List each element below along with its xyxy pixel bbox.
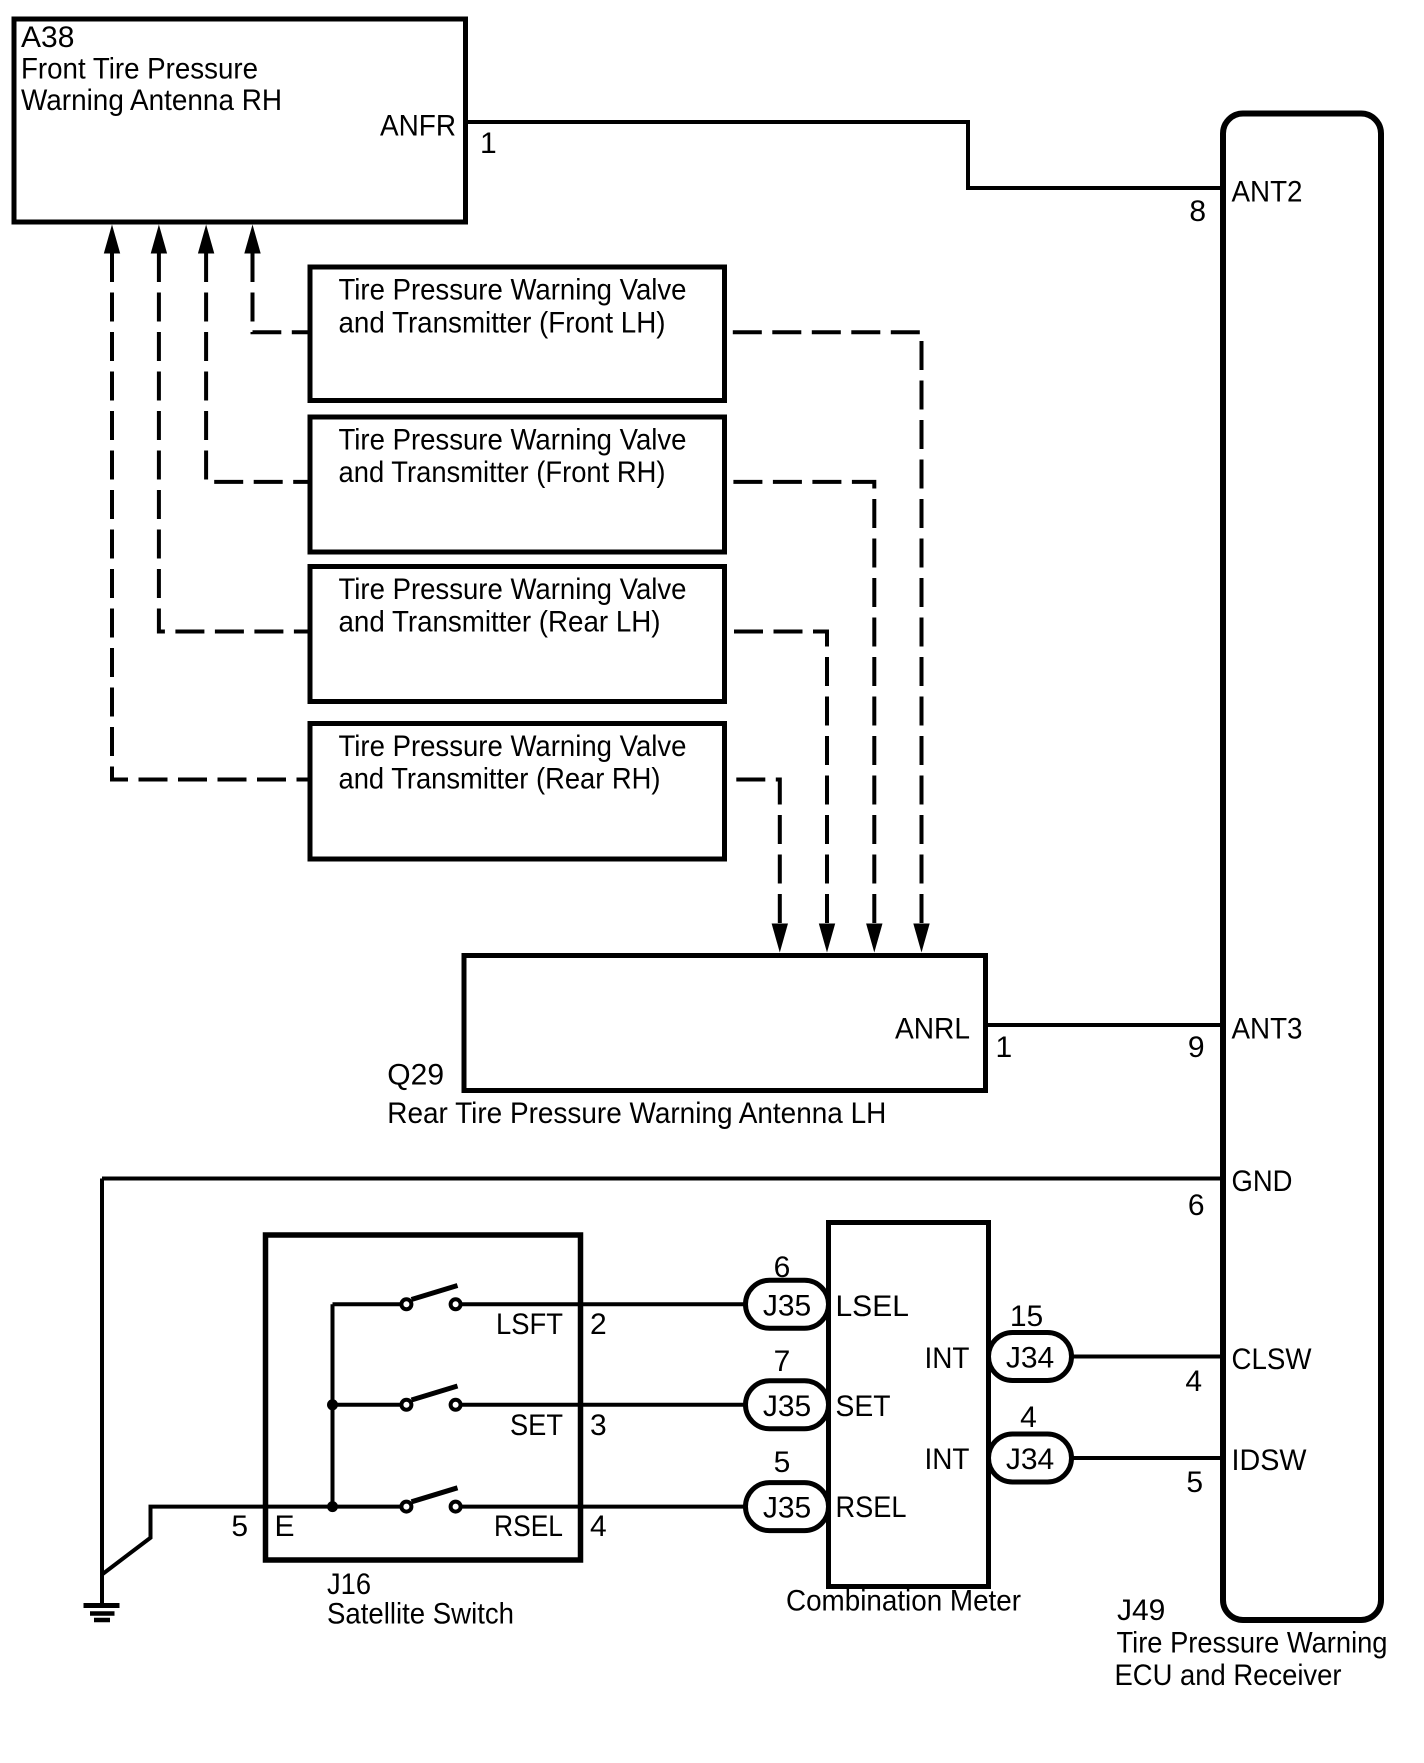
switch SET bbox=[327, 1386, 746, 1410]
pin number 8 (ANT2) bbox=[1189, 195, 1206, 228]
pin label GND bbox=[1232, 1165, 1293, 1198]
svg-text:Q29: Q29 bbox=[387, 1059, 444, 1092]
arrowhead into Q29 (from Front LH) bbox=[913, 924, 929, 953]
arrowhead into A38 (from Rear RH) bbox=[104, 225, 120, 254]
svg-text:5: 5 bbox=[774, 1446, 791, 1479]
pin label SET (meter) bbox=[836, 1390, 891, 1423]
connector J34 pin4 (IDSW) bbox=[989, 1434, 1072, 1482]
pin number 5 (J35 RSEL) bbox=[774, 1446, 791, 1479]
wire ANRL pin1 to ECU pin9 ANT3 bbox=[986, 1023, 1225, 1027]
svg-text:4: 4 bbox=[1020, 1401, 1037, 1434]
pin number 7 (J35 SET) bbox=[774, 1345, 791, 1378]
svg-text:Combination Meter: Combination Meter bbox=[786, 1585, 1021, 1618]
svg-text:ANT2: ANT2 bbox=[1232, 176, 1303, 209]
connector J35 pin6 (LSEL) bbox=[746, 1280, 829, 1328]
svg-text:Rear Tire Pressure Warning Ant: Rear Tire Pressure Warning Antenna LH bbox=[387, 1097, 886, 1130]
svg-text:2: 2 bbox=[590, 1308, 607, 1341]
svg-text:J35: J35 bbox=[763, 1289, 811, 1322]
pin number 1 (ANFR) bbox=[480, 127, 497, 160]
arrowhead into Q29 (from Rear RH) bbox=[772, 924, 788, 953]
block Tire Pressure Warning Valve and Transmitter (Rear LH) bbox=[310, 567, 725, 702]
wire ANFR pin1 to ECU pin8 ANT2 bbox=[466, 122, 1224, 188]
pin number 9 (ANT3) bbox=[1188, 1031, 1205, 1064]
pin number 6 (J35 LSEL) bbox=[774, 1251, 791, 1284]
svg-text:4: 4 bbox=[590, 1510, 607, 1543]
dashed wire Front RH transmitter to Q29 antenna bbox=[727, 482, 874, 923]
svg-text:SET: SET bbox=[510, 1409, 563, 1442]
dashed wire Front RH transmitter to A38 antenna bbox=[206, 253, 308, 482]
pin label CLSW bbox=[1232, 1343, 1313, 1376]
pin label ANT2 bbox=[1232, 176, 1303, 209]
pin number 5 (E) bbox=[231, 1510, 248, 1543]
svg-text:J34: J34 bbox=[1006, 1342, 1054, 1375]
svg-text:GND: GND bbox=[1232, 1165, 1293, 1198]
wire J34 to ECU pin5 IDSW bbox=[1072, 1456, 1225, 1460]
pin number 3 (SET) bbox=[590, 1409, 607, 1442]
svg-text:and Transmitter (Front LH): and Transmitter (Front LH) bbox=[339, 306, 666, 339]
connector J35 pin7 (SET) bbox=[746, 1381, 829, 1429]
svg-text:4: 4 bbox=[1185, 1365, 1202, 1398]
pin number 2 (LSFT) bbox=[590, 1308, 607, 1341]
pin number 5 (IDSW) bbox=[1186, 1466, 1203, 1499]
pin label LSFT bbox=[496, 1308, 563, 1341]
dashed wire Front LH transmitter to A38 antenna bbox=[253, 253, 309, 332]
svg-text:Tire Pressure Warning Valve: Tire Pressure Warning Valve bbox=[339, 274, 687, 307]
caption J49 Tire Pressure Warning ECU and Receiver bbox=[1115, 1594, 1388, 1692]
svg-text:and Transmitter (Rear RH): and Transmitter (Rear RH) bbox=[339, 763, 661, 796]
pin label RSEL (meter) bbox=[836, 1491, 907, 1524]
wire ground vertical bus bbox=[100, 1179, 104, 1604]
svg-text:E: E bbox=[275, 1510, 295, 1543]
pin label ANT3 bbox=[1232, 1013, 1303, 1046]
block Tire Pressure Warning Valve and Transmitter (Front LH) bbox=[310, 267, 725, 401]
switch RSEL bbox=[327, 1488, 746, 1512]
pin label INT (lower) bbox=[925, 1443, 970, 1476]
svg-text:Tire Pressure Warning: Tire Pressure Warning bbox=[1117, 1627, 1388, 1660]
block Q29 Rear Tire Pressure Warning Antenna LH bbox=[387, 956, 985, 1131]
dashed wire Front LH transmitter to Q29 antenna bbox=[727, 332, 922, 923]
svg-text:Front Tire Pressure: Front Tire Pressure bbox=[21, 52, 258, 85]
pin label INT (upper) bbox=[925, 1342, 970, 1375]
svg-text:A38: A38 bbox=[21, 21, 74, 54]
svg-text:Warning Antenna RH: Warning Antenna RH bbox=[21, 84, 282, 117]
svg-text:LSFT: LSFT bbox=[496, 1308, 563, 1341]
wire E pin5 to ground bbox=[102, 1507, 333, 1575]
svg-text:1: 1 bbox=[996, 1031, 1013, 1064]
svg-text:SET: SET bbox=[836, 1390, 891, 1423]
pin label ANRL bbox=[895, 1013, 970, 1046]
svg-text:Satellite Switch: Satellite Switch bbox=[327, 1598, 514, 1631]
svg-text:J34: J34 bbox=[1006, 1443, 1054, 1476]
block Combination Meter bbox=[786, 1223, 1021, 1618]
svg-text:and Transmitter (Rear LH): and Transmitter (Rear LH) bbox=[339, 606, 661, 639]
svg-text:9: 9 bbox=[1188, 1031, 1205, 1064]
pin number 6 (GND) bbox=[1188, 1189, 1205, 1222]
pin number 4 (J34) bbox=[1020, 1401, 1037, 1434]
arrowhead into Q29 (from Front RH) bbox=[866, 924, 882, 953]
svg-text:5: 5 bbox=[231, 1510, 248, 1543]
svg-text:8: 8 bbox=[1189, 195, 1206, 228]
svg-text:ECU and Receiver: ECU and Receiver bbox=[1115, 1659, 1342, 1692]
pin label E bbox=[275, 1510, 295, 1543]
svg-text:ANFR: ANFR bbox=[380, 110, 456, 143]
svg-text:6: 6 bbox=[1188, 1189, 1205, 1222]
pin label IDSW bbox=[1232, 1444, 1308, 1477]
connector J35 pin5 (RSEL) bbox=[746, 1483, 829, 1531]
svg-text:J35: J35 bbox=[763, 1390, 811, 1423]
svg-text:5: 5 bbox=[1186, 1466, 1203, 1499]
ground symbol bbox=[84, 1606, 120, 1621]
svg-text:Tire Pressure Warning Valve: Tire Pressure Warning Valve bbox=[339, 730, 687, 763]
svg-text:INT: INT bbox=[925, 1342, 970, 1375]
switch LSFT bbox=[333, 1286, 746, 1310]
pin number 4 (CLSW) bbox=[1185, 1365, 1202, 1398]
block J16 Satellite Switch bbox=[266, 1235, 581, 1631]
block Tire Pressure Warning Valve and Transmitter (Rear RH) bbox=[310, 724, 725, 860]
pin number 1 (ANRL) bbox=[996, 1031, 1013, 1064]
pin label LSEL bbox=[836, 1290, 909, 1323]
svg-text:ANT3: ANT3 bbox=[1232, 1013, 1303, 1046]
pin label ANFR bbox=[380, 110, 456, 143]
arrowhead into Q29 (from Rear LH) bbox=[819, 924, 835, 953]
pin label SET (switch) bbox=[510, 1409, 563, 1442]
ECU J49 box bbox=[1223, 114, 1381, 1621]
svg-text:CLSW: CLSW bbox=[1232, 1343, 1313, 1376]
arrowhead into A38 (from Front LH) bbox=[244, 225, 260, 254]
svg-text:J35: J35 bbox=[763, 1492, 811, 1525]
block Tire Pressure Warning Valve and Transmitter (Front RH) bbox=[310, 417, 725, 552]
svg-text:15: 15 bbox=[1010, 1300, 1043, 1333]
svg-text:Tire Pressure Warning Valve: Tire Pressure Warning Valve bbox=[339, 573, 687, 606]
wire J34 to ECU pin4 CLSW bbox=[1072, 1355, 1225, 1359]
svg-text:6: 6 bbox=[774, 1251, 791, 1284]
wire ground bus to ECU pin6 GND bbox=[102, 1177, 1223, 1181]
svg-text:7: 7 bbox=[774, 1345, 791, 1378]
block A38 Front Tire Pressure Warning Antenna RH bbox=[14, 19, 466, 222]
svg-text:ANRL: ANRL bbox=[895, 1013, 970, 1046]
svg-text:J49: J49 bbox=[1117, 1594, 1165, 1627]
wire switch common bus bbox=[331, 1304, 335, 1506]
svg-text:RSEL: RSEL bbox=[836, 1491, 907, 1524]
svg-text:LSEL: LSEL bbox=[836, 1290, 909, 1323]
svg-text:Tire Pressure Warning Valve: Tire Pressure Warning Valve bbox=[339, 424, 687, 457]
svg-text:RSEL: RSEL bbox=[494, 1510, 563, 1543]
svg-text:3: 3 bbox=[590, 1409, 607, 1442]
svg-text:INT: INT bbox=[925, 1443, 970, 1476]
connector J34 pin15 (CLSW) bbox=[989, 1333, 1072, 1381]
svg-text:and Transmitter (Front RH): and Transmitter (Front RH) bbox=[339, 456, 666, 489]
pin number 4 (RSEL) bbox=[590, 1510, 607, 1543]
pin number 15 (J34) bbox=[1010, 1300, 1043, 1333]
svg-text:IDSW: IDSW bbox=[1232, 1444, 1308, 1477]
arrowhead into A38 (from Rear LH) bbox=[151, 225, 167, 254]
dashed wire Rear LH transmitter to A38 antenna bbox=[159, 253, 308, 632]
dashed wire Rear LH transmitter to Q29 antenna bbox=[727, 632, 827, 924]
dashed wire Rear RH transmitter to Q29 antenna bbox=[727, 780, 780, 924]
svg-text:J16: J16 bbox=[327, 1568, 371, 1601]
dashed wire Rear RH transmitter to A38 antenna bbox=[112, 253, 308, 780]
pin label RSEL (switch) bbox=[494, 1510, 563, 1543]
svg-text:1: 1 bbox=[480, 127, 497, 160]
arrowhead into A38 (from Front RH) bbox=[198, 225, 214, 254]
